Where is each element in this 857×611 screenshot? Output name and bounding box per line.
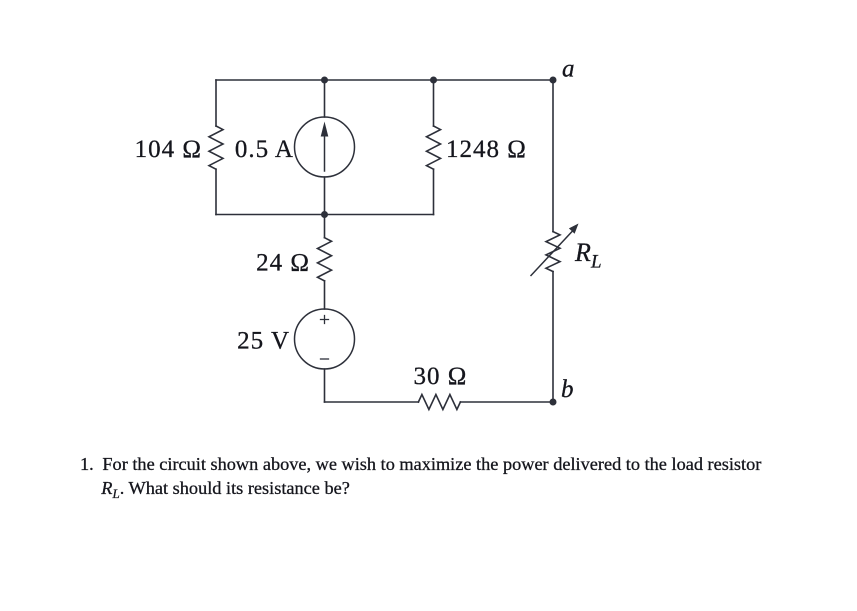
svg-text:1.: 1. [80, 454, 94, 474]
current source I1 0.5 A circle [295, 117, 355, 177]
wire current source top lead [324, 80, 326, 117]
node b label [561, 376, 574, 403]
wire 1248 branch lower [433, 169, 435, 214]
svg-text:L: L [590, 252, 602, 273]
wire source bottom lead [324, 369, 326, 402]
voltage source V1 25 V circle [295, 309, 355, 369]
wire middle branch to 24 ohm [324, 215, 326, 238]
svg-text:1248 Ω: 1248 Ω [446, 136, 527, 163]
wire left branch upper [215, 80, 217, 126]
resistor 104 ohm [209, 126, 223, 169]
junction dot top 1248 [430, 77, 437, 84]
wire left branch lower [215, 169, 217, 214]
label 0.5 A [235, 136, 294, 163]
svg-text:30 Ω: 30 Ω [414, 363, 468, 390]
svg-text:0.5 A: 0.5 A [235, 136, 294, 163]
svg-text:104 Ω: 104 Ω [135, 136, 202, 163]
resistor RL variable [546, 232, 560, 272]
problem text line 1 [80, 454, 761, 474]
svg-text:RL. What should its resistance: RL. What should its resistance be? [100, 478, 350, 501]
RL arrow [531, 224, 579, 276]
label 30 ohm [414, 363, 468, 390]
label RL [574, 238, 602, 273]
svg-text:For the circuit shown above, w: For the circuit shown above, we wish to … [102, 454, 761, 474]
svg-text:R: R [574, 238, 591, 267]
wire current source bottom lead [324, 177, 326, 215]
label 24 ohm [256, 250, 310, 277]
problem text line 2 [100, 478, 350, 501]
label 1248 ohm [446, 136, 527, 163]
wire right branch lower [552, 272, 554, 403]
resistor 24 ohm [318, 238, 332, 281]
junction dot middle [321, 211, 328, 218]
wire middle rail bottom [216, 214, 434, 216]
resistor 30 ohm [418, 395, 460, 410]
wire 24 ohm to source [324, 281, 326, 309]
wire bottom rail right [460, 401, 553, 403]
node a dot [550, 77, 557, 84]
resistor 1248 ohm [427, 126, 441, 169]
voltage source minus sign [321, 358, 329, 360]
wire 1248 branch upper [433, 80, 435, 126]
wire right branch upper [552, 80, 554, 232]
svg-text:a: a [562, 56, 575, 83]
current source arrow [321, 122, 329, 172]
label 25 V [237, 328, 290, 355]
junction dot top current source [321, 77, 328, 84]
svg-text:b: b [561, 376, 574, 403]
voltage source plus sign [321, 316, 329, 324]
node a label [562, 56, 575, 83]
svg-text:24 Ω: 24 Ω [256, 250, 310, 277]
svg-text:25 V: 25 V [237, 328, 290, 355]
wire top rail [216, 79, 553, 81]
node b dot [550, 399, 557, 406]
label 104 ohm [135, 136, 202, 163]
wire bottom rail left [325, 401, 419, 403]
